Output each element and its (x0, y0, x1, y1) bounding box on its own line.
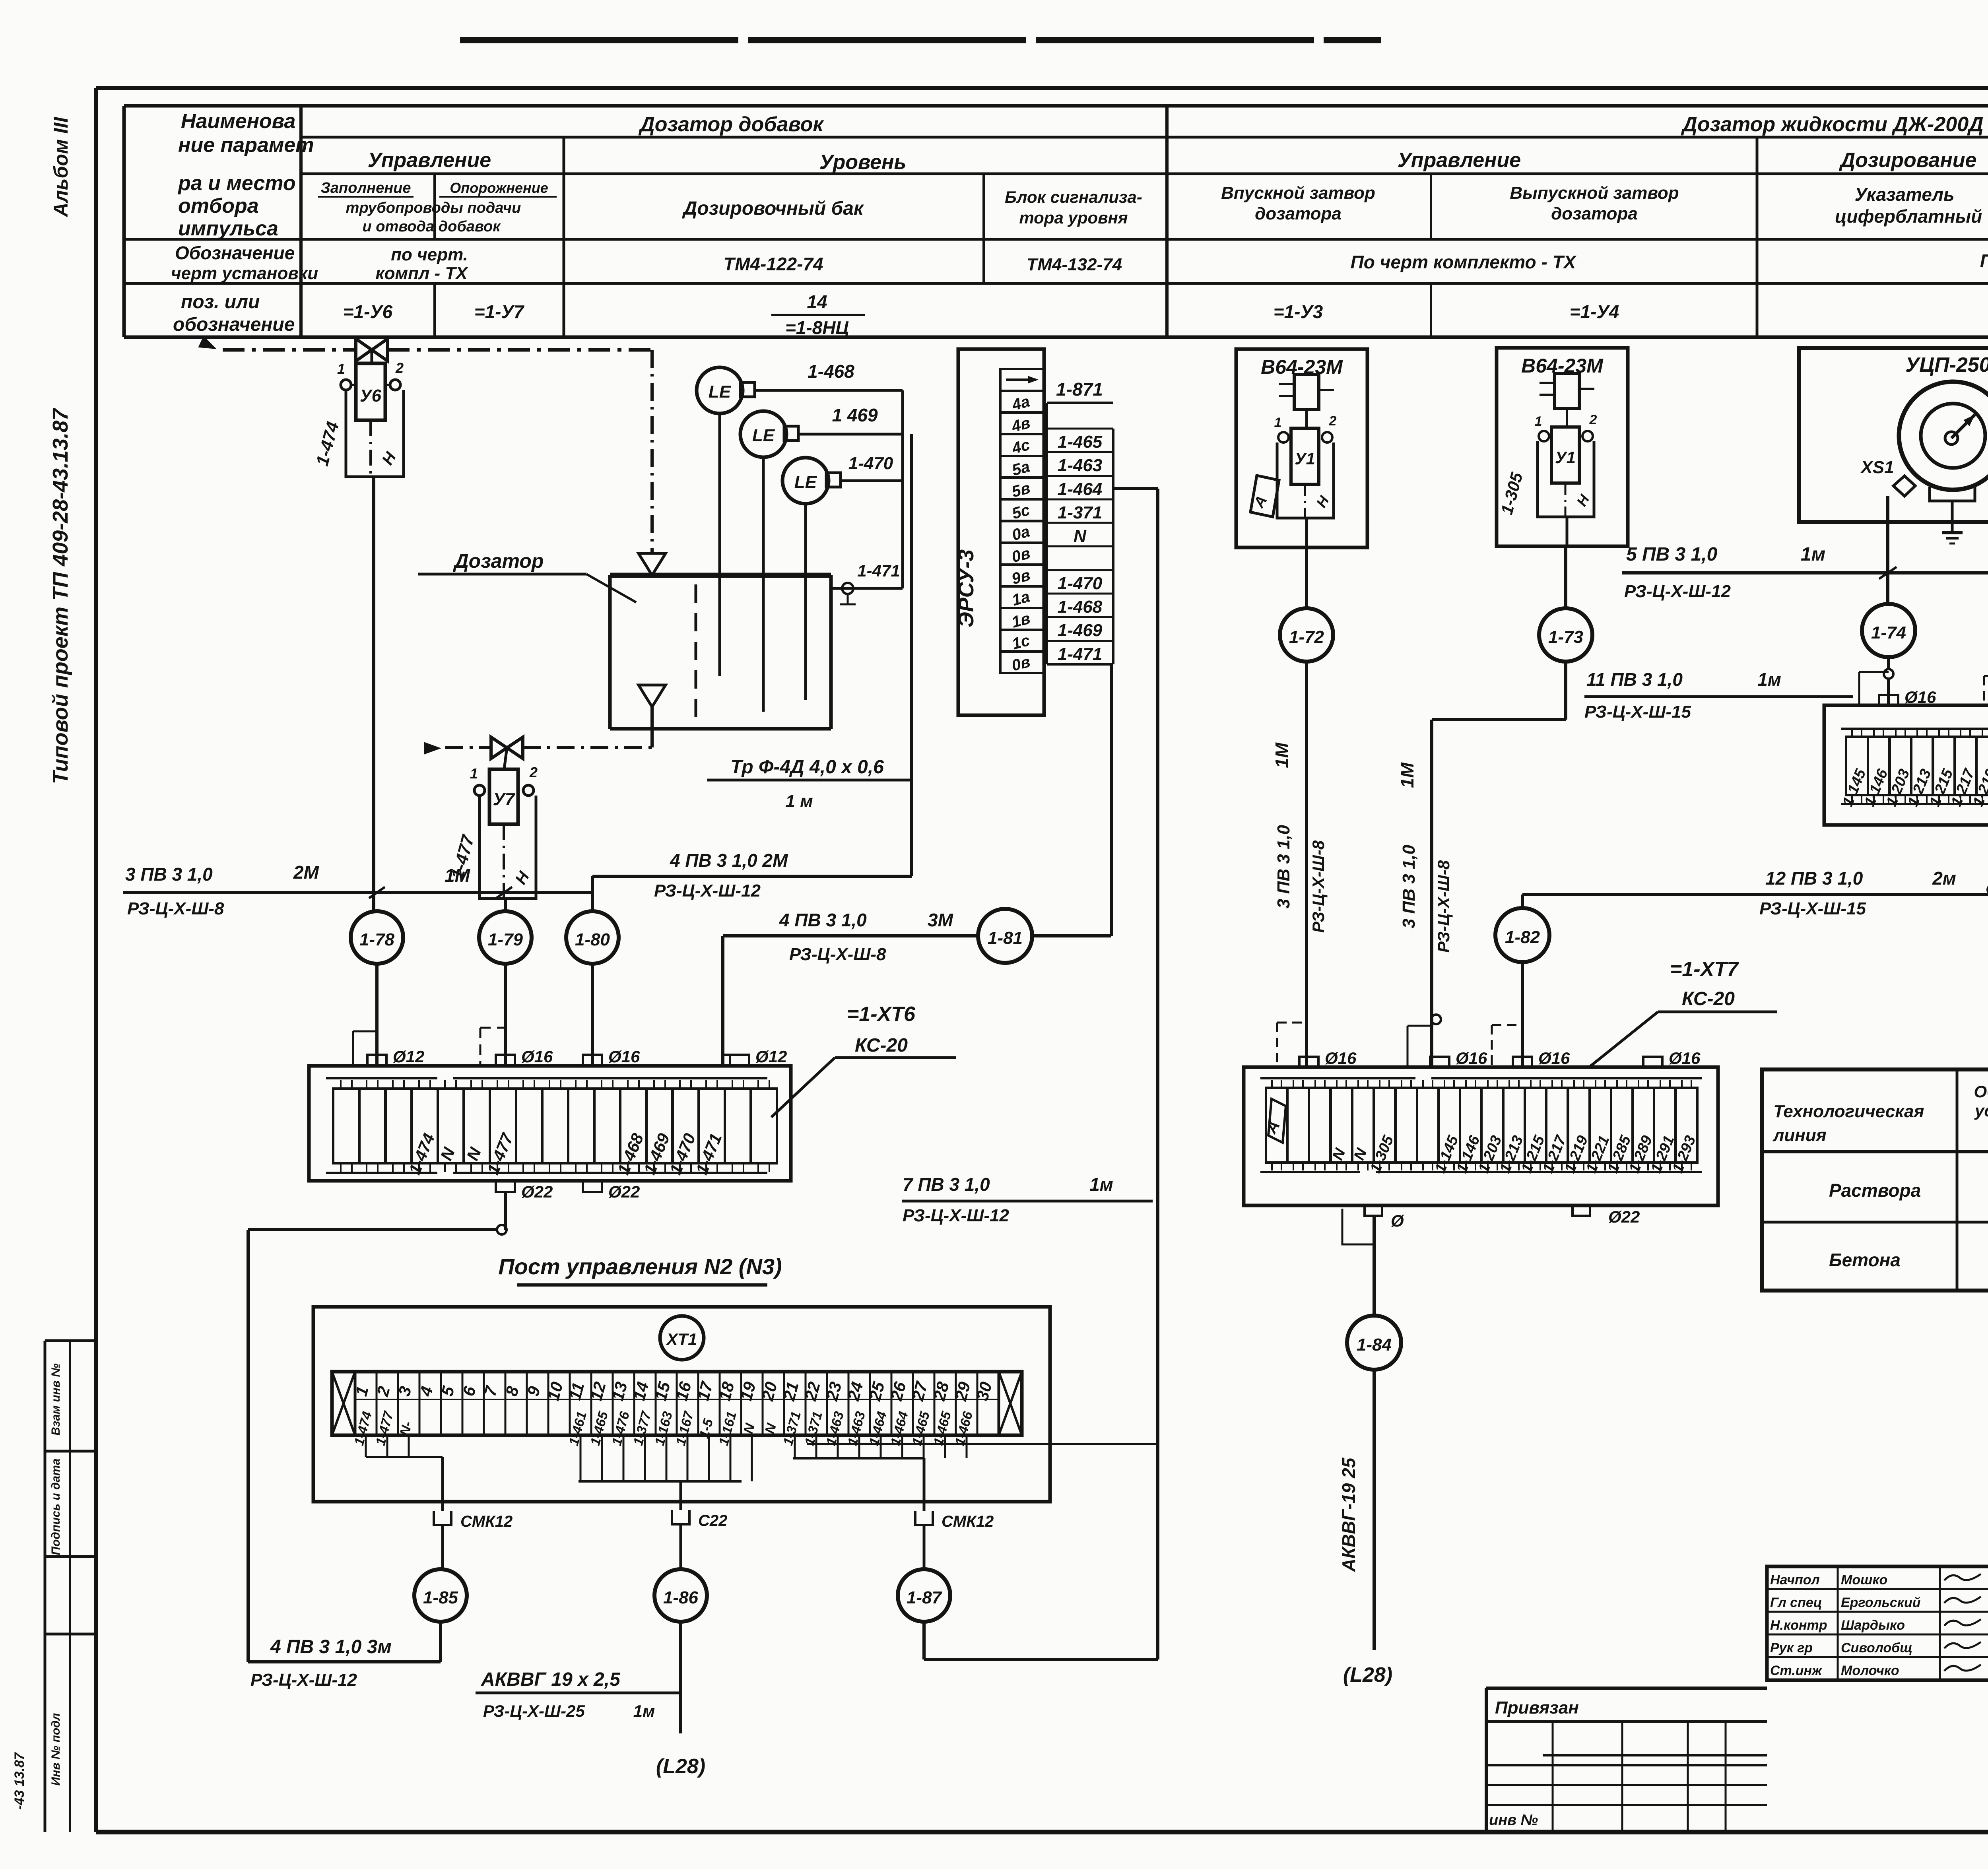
svg-text:Привязан: Привязан (1495, 1698, 1579, 1718)
device box В64-23М #1 (1236, 349, 1367, 547)
svg-text:1-468: 1-468 (1058, 597, 1103, 617)
svg-text:Молочко: Молочко (1841, 1663, 1899, 1678)
svg-text:1: 1 (337, 361, 345, 377)
svg-text:1 469: 1 469 (832, 405, 878, 425)
svg-text:=1-У7: =1-У7 (474, 301, 525, 322)
XT7 wire brackets (1277, 1022, 1306, 1024)
svg-text:LE: LE (794, 472, 817, 492)
svg-text:1М: 1М (1397, 762, 1417, 788)
svg-text:Ø12: Ø12 (755, 1047, 787, 1066)
svg-text:ХS1: ХS1 (1860, 458, 1894, 477)
svg-text:Ø: Ø (1391, 1211, 1404, 1230)
svg-text:Указатель: Указатель (1855, 184, 1955, 205)
svg-text:Опорожнение: Опорожнение (450, 180, 548, 196)
svg-text:тора уровня: тора уровня (1019, 208, 1128, 227)
XT1 designation circle (660, 1316, 704, 1360)
svg-text:Мошко: Мошко (1841, 1572, 1887, 1588)
svg-text:обозначение: обозначение (173, 314, 295, 335)
cable 12ПВ route (1522, 893, 1988, 896)
svg-text:3 ПВ 3 1,0: 3 ПВ 3 1,0 (125, 864, 213, 885)
wire У6 to 1-78 (372, 477, 375, 911)
control post box (313, 1307, 1050, 1502)
svg-text:У1: У1 (1555, 448, 1576, 467)
svg-text:-43 13.87: -43 13.87 (12, 1752, 27, 1810)
cable circle 1-84 (1347, 1316, 1401, 1370)
cable circle 1-73 (1539, 608, 1592, 662)
svg-text:Дозатор добавок: Дозатор добавок (638, 113, 824, 136)
svg-text:Технологическая: Технологическая (1773, 1102, 1924, 1121)
cable ref line 3ПВ left (123, 891, 594, 894)
svg-text:Дозатор: Дозатор (453, 550, 544, 572)
svg-text:Раствора: Раствора (1829, 1180, 1921, 1201)
svg-text:РЗ-Ц-Х-Ш-12: РЗ-Ц-Х-Ш-12 (654, 881, 761, 901)
svg-text:РЗ-Ц-Х-Ш-8: РЗ-Ц-Х-Ш-8 (127, 899, 224, 918)
svg-text:1-464: 1-464 (1058, 479, 1103, 499)
title block signature table (1767, 1566, 1988, 1680)
svg-text:РЗ-Ц-Х-Ш-12: РЗ-Ц-Х-Ш-12 (250, 1670, 357, 1690)
svg-text:5 ПВ 3 1,0: 5 ПВ 3 1,0 (1626, 544, 1718, 565)
terminal block XT8 (1824, 705, 1988, 825)
svg-text:Сиволобщ: Сиволобщ (1841, 1640, 1912, 1656)
svg-text:компл - ТХ: компл - ТХ (375, 264, 468, 283)
svg-text:ХТ1: ХТ1 (666, 1330, 697, 1349)
svg-text:=1-У4: =1-У4 (1570, 301, 1619, 322)
cable ref line 5ПВ/3ПВ (1622, 571, 1988, 574)
svg-text:АКВВГ 19 х 2,5: АКВВГ 19 х 2,5 (481, 1669, 621, 1690)
svg-text:По черт. завода изготовител: По черт. завода изготовителя (1980, 250, 1988, 271)
svg-text:3 ПВ 3 1,0: 3 ПВ 3 1,0 (1399, 844, 1419, 928)
svg-text:1-73: 1-73 (1548, 627, 1583, 647)
svg-text:1-86: 1-86 (663, 1588, 699, 1607)
tank outlet funnel (639, 685, 666, 707)
sidebar cells (45, 1339, 96, 1342)
svg-text:1-465: 1-465 (1058, 432, 1103, 452)
svg-text:1-87: 1-87 (907, 1588, 943, 1607)
svg-text:1-371: 1-371 (1058, 503, 1103, 522)
svg-text:1-469: 1-469 (1058, 621, 1103, 640)
valve У6 body (356, 339, 388, 361)
svg-text:Ø22: Ø22 (521, 1182, 553, 1201)
svg-text:РЗ-Ц-Х-Ш-12: РЗ-Ц-Х-Ш-12 (1624, 582, 1731, 601)
svg-text:1м: 1м (633, 1702, 655, 1720)
XT1 middle group wires (580, 1435, 582, 1481)
level sensor LE3 (782, 458, 829, 504)
instrument panel box (1799, 348, 1988, 522)
svg-text:С22: С22 (698, 1512, 727, 1529)
svg-text:Альбом III: Альбом III (50, 116, 72, 217)
dosing tank (610, 573, 831, 578)
svg-text:1-468: 1-468 (808, 361, 854, 382)
ERSU output wires (1113, 487, 1158, 490)
svg-text:1-78: 1-78 (359, 930, 395, 949)
svg-text:поз. или: поз. или (181, 291, 260, 312)
svg-text:1-72: 1-72 (1289, 627, 1324, 647)
svg-text:инв №: инв № (1489, 1812, 1538, 1828)
У6 stem dash-dot (369, 420, 372, 477)
svg-text:ТМ4-132-74: ТМ4-132-74 (1027, 255, 1122, 274)
svg-text:7 ПВ 3 1,0: 7 ПВ 3 1,0 (903, 1174, 990, 1195)
svg-text:ЭРСУ-3: ЭРСУ-3 (954, 549, 978, 627)
svg-text:Управление: Управление (368, 149, 491, 172)
XT6 wire brackets (352, 1031, 354, 1064)
cable circle 1-87 (898, 1569, 950, 1622)
svg-text:У7: У7 (493, 790, 516, 809)
technology table (1762, 1069, 1988, 1291)
svg-text:ра и место: ра и место (177, 172, 296, 195)
svg-text:1-79: 1-79 (488, 930, 523, 949)
svg-text:1: 1 (1535, 414, 1542, 429)
svg-text:У6: У6 (360, 386, 382, 406)
level sensor LE2 (740, 411, 786, 457)
svg-text:Управление: Управление (1398, 149, 1521, 172)
svg-text:Ø12: Ø12 (393, 1047, 424, 1066)
svg-text:Ø16: Ø16 (1456, 1049, 1487, 1067)
cable circle 1-78 (351, 911, 403, 964)
svg-text:1-470: 1-470 (1058, 574, 1103, 593)
connector СМК12 right (915, 1511, 933, 1525)
svg-text:циферблатный: циферблатный (1835, 206, 1982, 227)
svg-text:Ст.инж: Ст.инж (1770, 1663, 1823, 1678)
svg-text:3М: 3М (928, 910, 954, 930)
svg-text:1-471: 1-471 (1058, 644, 1103, 664)
svg-text:Выпускной затвор: Выпускной затвор (1510, 183, 1679, 203)
cable circle 1-82 (1495, 908, 1549, 962)
svg-text:УЦП-250-3ВД: УЦП-250-3ВД (1905, 353, 1988, 377)
device box В64-23М #2 (1497, 348, 1628, 546)
overflow fitting 1-471 (831, 587, 903, 590)
svg-text:Пост управления N2 (N3): Пост управления N2 (N3) (498, 1254, 782, 1279)
wire to 1-73 (1564, 546, 1567, 608)
connector СМК12 left (434, 1511, 451, 1525)
cable circle 1-79 (479, 911, 532, 964)
LE2 probe (762, 457, 765, 712)
svg-text:1М: 1М (1272, 742, 1292, 768)
XT8 wire brackets (1859, 671, 1889, 673)
terminal block XT7 (1244, 1067, 1718, 1205)
svg-text:1м: 1м (1089, 1174, 1113, 1195)
svg-text:3 ПВ 3 1,0: 3 ПВ 3 1,0 (1274, 825, 1293, 908)
svg-text:Ø16: Ø16 (521, 1047, 553, 1066)
svg-text:1-81: 1-81 (988, 928, 1023, 948)
XT8 top cable entries (1879, 695, 1898, 705)
svg-text:КС-20: КС-20 (1682, 988, 1735, 1009)
svg-text:2: 2 (395, 360, 404, 376)
svg-text:Типовой проект ТП 409-28-43.13: Типовой проект ТП 409-28-43.13.87 (49, 408, 72, 784)
svg-text:1-471: 1-471 (857, 561, 900, 580)
svg-text:и отвода добавок: и отвода добавок (362, 218, 501, 235)
junction on 1-73 wire (1431, 1015, 1441, 1024)
svg-text:По черт комплекто - ТХ: По черт комплекто - ТХ (1351, 252, 1577, 272)
svg-text:4 ПВ 3 1,0 3м: 4 ПВ 3 1,0 3м (270, 1636, 392, 1657)
svg-text:устройства: устройства (1974, 1101, 1988, 1120)
XT1 left group wires (365, 1435, 367, 1457)
terminal strip XT1 (332, 1372, 1022, 1435)
svg-text:Гл спец: Гл спец (1770, 1595, 1822, 1610)
tank inlet funnel (639, 553, 666, 575)
svg-text:Дозирование: Дозирование (1839, 149, 1977, 172)
dashed pipe to tank inlet (650, 350, 654, 553)
svg-text:РЗ-Ц-Х-Ш-15: РЗ-Ц-Х-Ш-15 (1759, 899, 1866, 918)
svg-text:1-85: 1-85 (423, 1588, 458, 1607)
svg-text:Ø16: Ø16 (1538, 1049, 1570, 1067)
svg-text:трубопроводы подачи: трубопроводы подачи (346, 200, 521, 216)
svg-text:Инв № подл: Инв № подл (49, 1713, 62, 1786)
wire XS1 to 1-74 (1886, 496, 1889, 604)
svg-text:N: N (1074, 526, 1087, 546)
header table grid (124, 104, 1988, 108)
svg-text:=1-ХТ7: =1-ХТ7 (1670, 958, 1739, 981)
svg-text:Ергольский: Ергольский (1841, 1595, 1921, 1610)
svg-text:Обозначение: Обозначение (1974, 1082, 1988, 1101)
svg-text:1-463: 1-463 (1058, 456, 1103, 475)
svg-text:Ø16: Ø16 (1905, 688, 1936, 706)
valve У7 body (491, 737, 523, 759)
svg-text:14: 14 (807, 291, 827, 312)
svg-text:Начпол: Начпол (1770, 1572, 1820, 1588)
svg-text:=1-У6: =1-У6 (343, 301, 393, 322)
svg-text:1-82: 1-82 (1505, 928, 1540, 947)
wire bus down to 1-80 (592, 875, 912, 878)
wire to 1-84 (1373, 1216, 1376, 1316)
svg-text:импульса: импульса (178, 217, 278, 240)
svg-text:Подпись и дата: Подпись и дата (49, 1458, 62, 1555)
svg-text:Шардыко: Шардыко (1841, 1618, 1905, 1633)
svg-text:ние парамет: ние парамет (178, 134, 314, 157)
svg-text:1м: 1м (1757, 669, 1781, 690)
cable circle 1-72 (1280, 608, 1333, 662)
connector С22 (672, 1510, 689, 1524)
svg-text:LE: LE (752, 426, 775, 445)
svg-text:11 ПВ 3 1,0: 11 ПВ 3 1,0 (1586, 669, 1683, 690)
svg-text:Ø16: Ø16 (1325, 1049, 1357, 1067)
svg-text:LE: LE (709, 382, 732, 402)
svg-text:Взам инв №: Взам инв № (49, 1363, 62, 1435)
svg-text:РЗ-Ц-Х-Ш-12: РЗ-Ц-Х-Ш-12 (903, 1206, 1010, 1225)
svg-text:черт установки: черт установки (171, 264, 318, 283)
svg-text:2: 2 (529, 764, 538, 780)
level sensor LE1 (697, 367, 743, 413)
svg-text:РЗ-Ц-Х-Ш-25: РЗ-Ц-Х-Ш-25 (483, 1702, 585, 1720)
svg-text:Тр Ф-4Д 4,0 х 0,6: Тр Ф-4Д 4,0 х 0,6 (730, 757, 884, 778)
svg-text:4 ПВ 3 1,0: 4 ПВ 3 1,0 (779, 910, 867, 930)
svg-text:4 ПВ 3 1,0 2М: 4 ПВ 3 1,0 2М (670, 850, 788, 871)
svg-text:1-470: 1-470 (848, 454, 893, 473)
dial base and ground (1930, 487, 1975, 501)
XT1 right group wires (794, 1435, 796, 1458)
svg-text:1-74: 1-74 (1871, 623, 1906, 642)
svg-text:КС-20: КС-20 (855, 1035, 908, 1056)
ERSU-3 outer box (958, 349, 1044, 715)
svg-text:Впускной затвор: Впускной затвор (1221, 183, 1375, 203)
svg-text:Бетона: Бетона (1829, 1250, 1901, 1270)
pipe line with valve У6 (198, 336, 219, 355)
svg-text:1М: 1М (445, 865, 471, 886)
cable circle 1-85 (414, 1569, 467, 1622)
right bus to riser (807, 1443, 1158, 1445)
У7 mounting bracket (480, 796, 536, 899)
svg-text:Ø16: Ø16 (1669, 1049, 1701, 1067)
svg-text:Заполнение: Заполнение (321, 180, 411, 196)
svg-text:=1-ХТ6: =1-ХТ6 (847, 1003, 916, 1026)
svg-text:У1: У1 (1295, 449, 1315, 468)
svg-text:Рук гр: Рук гр (1770, 1640, 1813, 1656)
svg-text:по черт.: по черт. (391, 245, 468, 264)
svg-text:ТМ4-122-74: ТМ4-122-74 (723, 254, 823, 274)
svg-text:СМК12: СМК12 (942, 1513, 994, 1530)
svg-text:РЗ-Ц-Х-Ш-8: РЗ-Ц-Х-Ш-8 (789, 945, 886, 964)
svg-text:РЗ-Ц-Х-Ш-8: РЗ-Ц-Х-Ш-8 (1434, 860, 1453, 953)
svg-text:2: 2 (1589, 412, 1597, 427)
svg-text:2М: 2М (293, 862, 320, 883)
svg-text:=1-У3: =1-У3 (1274, 301, 1323, 322)
device У6 box (356, 363, 385, 420)
svg-text:1м: 1м (1801, 544, 1825, 565)
svg-text:Ø22: Ø22 (1608, 1207, 1640, 1226)
XT6 top cable entries (367, 1055, 386, 1066)
svg-text:Н.контр: Н.контр (1770, 1618, 1827, 1633)
svg-text:Уровень: Уровень (819, 151, 907, 174)
svg-text:Блок сигнализа-: Блок сигнализа- (1005, 188, 1142, 206)
svg-text:Ø22: Ø22 (608, 1182, 640, 1201)
drain pipe with valve У7 (424, 742, 441, 755)
XT7 top cable entries (1299, 1057, 1318, 1067)
svg-text:2м: 2м (1932, 868, 1956, 889)
У7 pins (474, 785, 485, 796)
LE3 probe (804, 504, 807, 700)
sheet frame (96, 86, 1988, 90)
svg-text:линия: линия (1773, 1126, 1827, 1145)
terminal block XT6 (309, 1066, 791, 1181)
top border broken line (460, 37, 1381, 43)
XT6 bottom cable exits (496, 1181, 515, 1192)
XT6 outgoing wire to 1-85 route (504, 1192, 507, 1230)
svg-text:2: 2 (1329, 413, 1337, 429)
wire to 1-72 (1305, 547, 1308, 608)
svg-text:12 ПВ 3 1,0: 12 ПВ 3 1,0 (1765, 868, 1863, 889)
svg-text:1-871: 1-871 (1056, 379, 1103, 400)
svg-text:Обозначение: Обозначение (175, 243, 295, 263)
cable circle 1-74 (1862, 604, 1915, 657)
svg-text:1: 1 (1274, 415, 1282, 430)
device У7 box (489, 769, 518, 824)
svg-text:1-80: 1-80 (575, 930, 610, 949)
svg-text:отбора: отбора (178, 194, 259, 217)
svg-text:(L28): (L28) (1343, 1663, 1392, 1687)
У6 pins (341, 380, 351, 390)
LE1 probe (718, 413, 721, 676)
cable circle 1-81 (978, 909, 1032, 963)
svg-text:1-84: 1-84 (1357, 1335, 1392, 1355)
svg-text:1 м: 1 м (785, 792, 813, 811)
svg-text:Дозатор жидкости ДЖ-200Д: Дозатор жидкости ДЖ-200Д (1681, 113, 1983, 136)
ERSU-3 terminal column (1000, 369, 1044, 675)
riser to ERSU (1156, 489, 1159, 1659)
svg-text:РЗ-Ц-Х-Ш-15: РЗ-Ц-Х-Ш-15 (1584, 702, 1691, 722)
cable circle 1-86 (654, 1569, 707, 1622)
У6 mounting bracket (346, 390, 404, 477)
svg-text:СМК12: СМК12 (460, 1513, 513, 1530)
svg-text:дозатора: дозатора (1551, 204, 1638, 223)
ref line crossing ticks (1879, 567, 1897, 579)
svg-text:Наименова: Наименова (181, 110, 295, 133)
svg-text:Ø16: Ø16 (608, 1047, 640, 1066)
signal bus to ERSU (901, 390, 904, 588)
binding table (1486, 1687, 1767, 1690)
svg-text:дозатора: дозатора (1255, 204, 1342, 223)
cable circle 1-80 (566, 911, 619, 964)
XT7 bottom exit (1365, 1205, 1382, 1216)
У7 stem dash-dot (503, 824, 505, 899)
svg-text:РЗ-Ц-Х-Ш-8: РЗ-Ц-Х-Ш-8 (1309, 840, 1328, 933)
svg-text:АКВВГ-19 25: АКВВГ-19 25 (1338, 1457, 1359, 1572)
svg-text:Дозировочный бак: Дозировочный бак (682, 198, 864, 219)
svg-text:1: 1 (470, 765, 478, 782)
svg-text:(L28): (L28) (656, 1755, 705, 1778)
svg-text:=1-8НЦ: =1-8НЦ (785, 317, 849, 338)
